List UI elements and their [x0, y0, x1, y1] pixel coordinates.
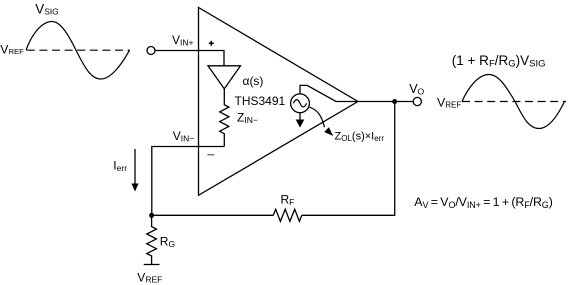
svg-text:VREF: VREF	[437, 96, 461, 110]
svg-text:VREF: VREF	[137, 271, 162, 285]
feedback node junction	[149, 213, 154, 218]
svg-text:AV = VO/VIN+ = 1 + (RF/RG): AV = VO/VIN+ = 1 + (RF/RG)	[414, 195, 552, 210]
svg-text:THS3491: THS3491	[235, 94, 286, 108]
wire source to output	[300, 85, 358, 101]
svg-text:VREF: VREF	[0, 42, 24, 56]
input impedance ZIN- resistor	[220, 89, 229, 147]
feedback wire right segment	[302, 102, 395, 216]
controlled source ZOL(s)xIerr	[291, 94, 310, 113]
VREF terminal bar	[144, 264, 160, 266]
svg-text:ZOL(s)×Ierr: ZOL(s)×Ierr	[335, 131, 385, 144]
wire VIN- to feedback node	[152, 147, 225, 216]
wire VIN+ to alpha(s) input	[155, 51, 224, 66]
svg-text:RG: RG	[160, 235, 175, 250]
svg-text:RF: RF	[281, 193, 295, 208]
callout arrow to ZOL label	[309, 107, 324, 127]
Ierr current arrow	[134, 149, 136, 184]
svg-text:VIN−: VIN−	[173, 129, 195, 144]
svg-text:VO: VO	[409, 82, 424, 97]
source current direction arrow	[299, 113, 301, 120]
internal amplifier alpha(s)	[208, 66, 241, 89]
svg-text:α(s): α(s)	[243, 74, 264, 88]
feedback wire left segment	[152, 214, 274, 216]
output terminal VO	[413, 97, 421, 105]
minus sign (inverting input)	[207, 154, 214, 156]
VSIG input waveform	[26, 22, 130, 80]
svg-text:ZIN−: ZIN−	[237, 111, 258, 126]
output junction node	[392, 99, 397, 104]
svg-text:Ierr: Ierr	[113, 159, 127, 174]
op-amp outline U1 THS3491	[199, 8, 359, 196]
svg-text:VSIG: VSIG	[35, 2, 58, 17]
output waveform	[462, 75, 565, 129]
resistor RF	[273, 209, 302, 221]
svg-text:(1 + RF/RG)VSIG: (1 + RF/RG)VSIG	[452, 53, 546, 70]
input terminal VIN+	[147, 47, 155, 55]
output wire	[358, 101, 413, 103]
VREF baseline (output side)	[462, 101, 566, 103]
VREF baseline (input side)	[27, 49, 130, 51]
svg-text:VIN+: VIN+	[172, 33, 194, 48]
plus sign (noninverting input)	[209, 41, 214, 46]
resistor RG	[147, 215, 157, 264]
